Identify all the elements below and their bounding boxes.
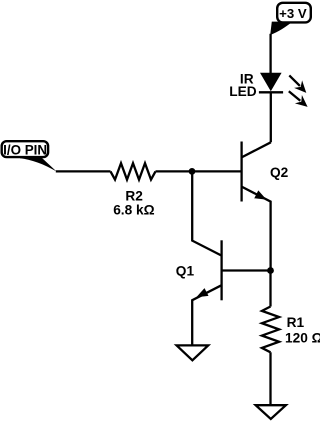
svg-text:R2: R2 [125, 189, 143, 204]
wire R1 to ground [269, 352, 271, 405]
wire +3V to LED anode [269, 34, 271, 74]
node A junction [189, 168, 196, 175]
ground (Q1 emitter) [177, 345, 209, 360]
svg-text:LED: LED [229, 84, 256, 99]
net label I/O PIN [2, 141, 57, 171]
wire R2 to node A [156, 170, 193, 172]
wire node B to R1 [269, 271, 271, 307]
svg-text:120 Ω: 120 Ω [285, 331, 320, 346]
svg-text:I/O PIN: I/O PIN [3, 143, 47, 158]
svg-text:R1: R1 [287, 315, 305, 330]
svg-text:Q1: Q1 [176, 264, 195, 279]
node B junction [267, 267, 274, 274]
wire Q1 base to node B [222, 269, 271, 271]
net label +3V [270, 3, 311, 35]
ground (R1) [256, 405, 286, 419]
LED D1 (IR LED) [229, 71, 307, 107]
transistor Q1 [176, 240, 222, 345]
wire Q2 base to node [192, 170, 241, 172]
wire LED cathode to Q2 collector [270, 92, 272, 142]
svg-text:Q2: Q2 [270, 165, 289, 180]
resistor R2 [111, 163, 156, 217]
svg-text:+3 V: +3 V [279, 6, 307, 21]
wire node A down to Q1 collector [192, 171, 221, 255]
svg-text:6.8 kΩ: 6.8 kΩ [113, 203, 154, 218]
wire I/O PIN to R2 [56, 170, 111, 172]
transistor Q2 [242, 142, 289, 271]
resistor R1 [262, 307, 320, 353]
